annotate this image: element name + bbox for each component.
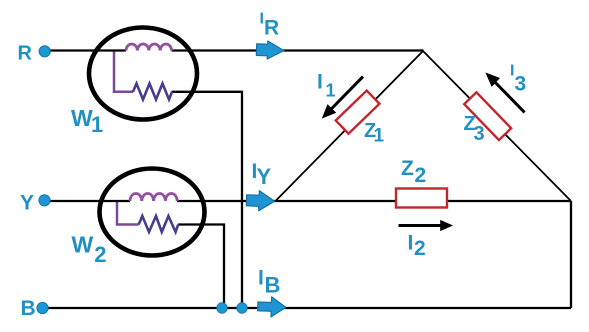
wire right vertical (570, 201, 572, 308)
svg-text:I: I (408, 232, 414, 255)
svg-text:Z: Z (401, 157, 414, 180)
svg-text:W: W (72, 232, 94, 258)
impedance Z1 (336, 91, 380, 134)
svg-text:B: B (21, 297, 36, 320)
svg-text:1: 1 (91, 112, 103, 137)
wattmeter W1 (89, 28, 197, 120)
wire delta left leg (276, 51, 424, 201)
W2 pressure bracket (117, 202, 139, 225)
impedance Z2 (396, 189, 447, 208)
W1 pressure bracket (114, 52, 133, 92)
node B terminal (37, 302, 48, 313)
current arrow I2 (399, 221, 452, 230)
W2 resistor zigzag (139, 216, 179, 232)
W1 current coil (126, 44, 172, 51)
line current arrow IR (256, 41, 284, 60)
svg-text:1: 1 (326, 81, 336, 101)
svg-text:W: W (71, 105, 93, 131)
svg-text:2: 2 (94, 242, 106, 267)
svg-text:Y: Y (20, 192, 34, 215)
node junction B-W1 (237, 303, 247, 313)
wire W1 pressure coil to B (172, 92, 242, 308)
svg-text:R: R (264, 17, 279, 40)
current arrow I3 (487, 74, 525, 113)
wire B phase line (48, 307, 572, 309)
svg-text:Y: Y (257, 164, 272, 189)
svg-text:I: I (317, 71, 323, 94)
line current arrow IY (246, 190, 275, 211)
svg-text:3: 3 (474, 123, 485, 145)
svg-text:2: 2 (415, 164, 427, 187)
svg-text:B: B (265, 273, 281, 298)
svg-text:1: 1 (374, 126, 385, 147)
current arrow I1 (323, 77, 363, 118)
svg-text:R: R (18, 43, 33, 65)
wattmeter W2 (100, 169, 205, 256)
impedance Z3 (464, 92, 511, 140)
W1 resistor zigzag (133, 84, 172, 100)
svg-text:2: 2 (414, 237, 426, 260)
node Y terminal (39, 195, 50, 206)
wire R phase line (50, 49, 424, 51)
node junction B-W2 (217, 303, 227, 313)
wire Y phase line (50, 200, 571, 202)
node R terminal (39, 46, 50, 57)
line current arrow IB (257, 296, 286, 317)
svg-text:3: 3 (515, 73, 527, 96)
W2 current coil (130, 193, 177, 201)
wire W2 pressure coil to B (178, 225, 224, 309)
svg-text:I: I (258, 267, 264, 290)
wire delta right leg (423, 51, 571, 201)
